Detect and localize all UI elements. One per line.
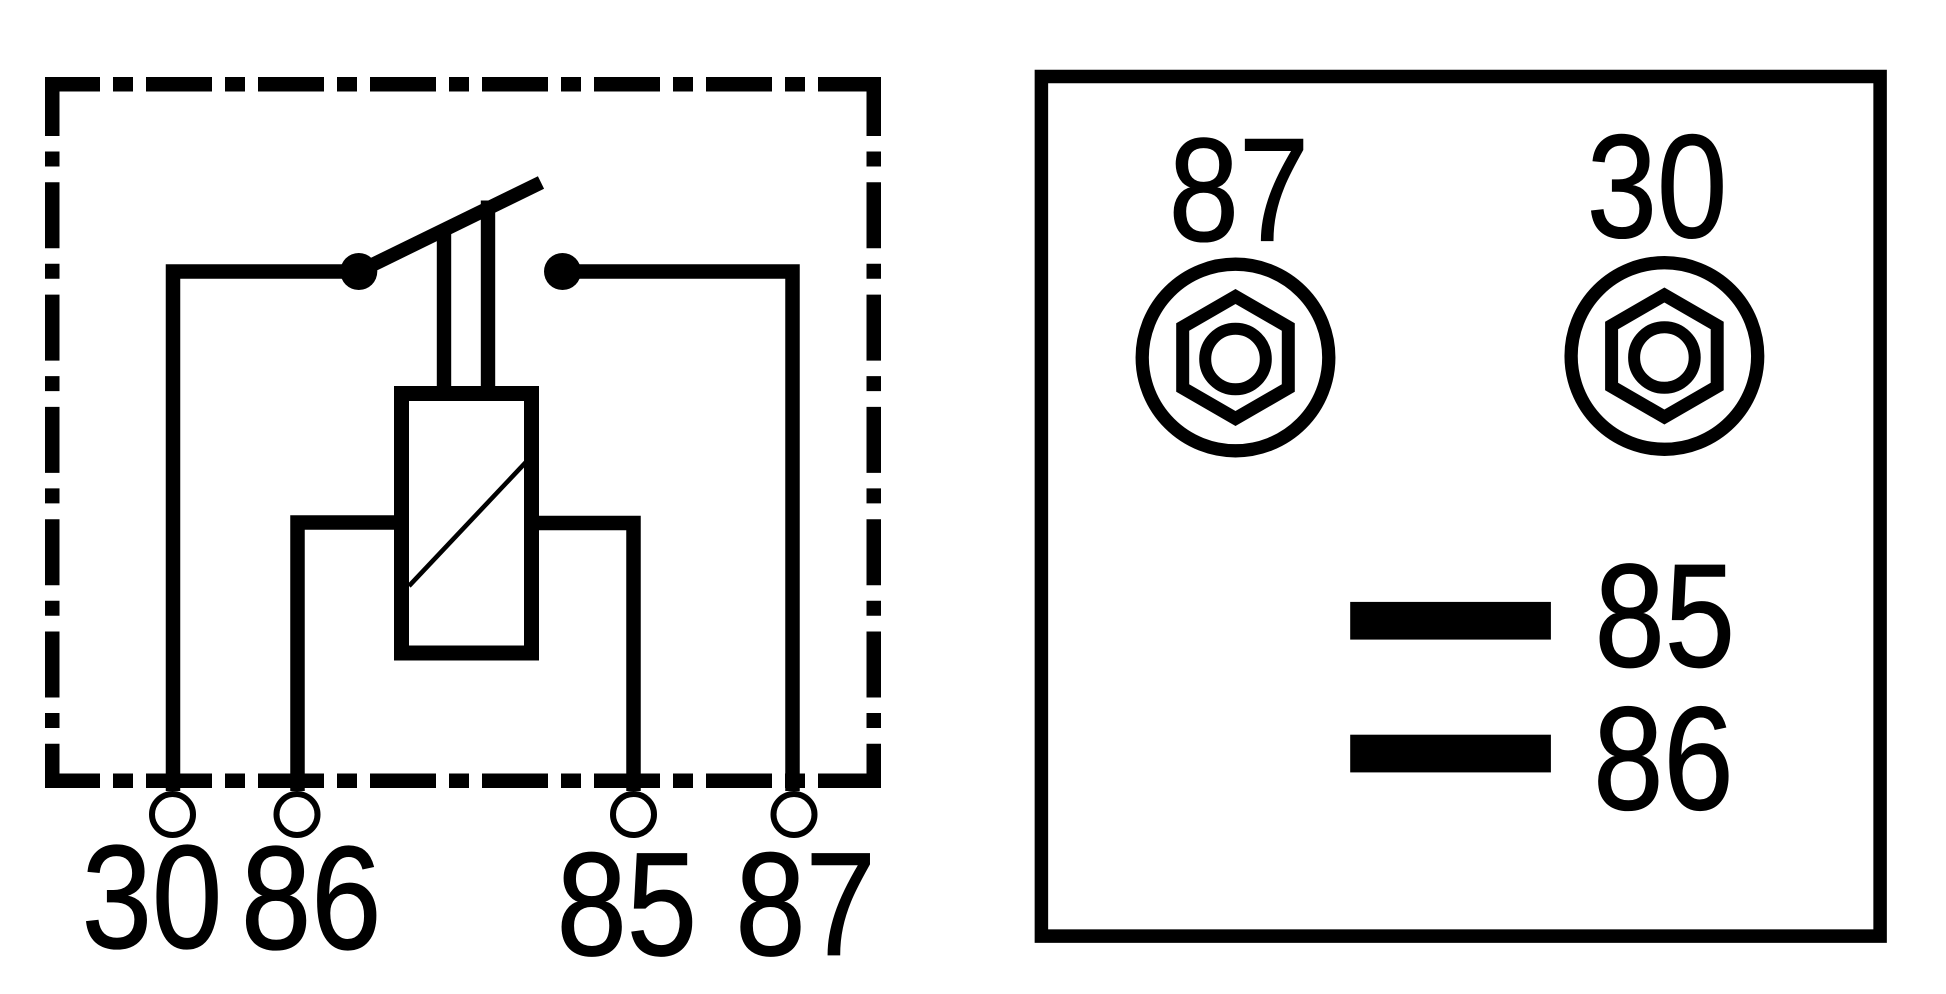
svg-text:85: 85 xyxy=(1595,534,1735,698)
svg-text:86: 86 xyxy=(1593,677,1733,841)
svg-text:85: 85 xyxy=(557,823,697,987)
svg-text:30: 30 xyxy=(1587,105,1727,269)
svg-text:30: 30 xyxy=(82,816,222,980)
svg-text:87: 87 xyxy=(1169,109,1309,273)
svg-text:86: 86 xyxy=(241,817,381,981)
svg-text:87: 87 xyxy=(735,823,875,987)
